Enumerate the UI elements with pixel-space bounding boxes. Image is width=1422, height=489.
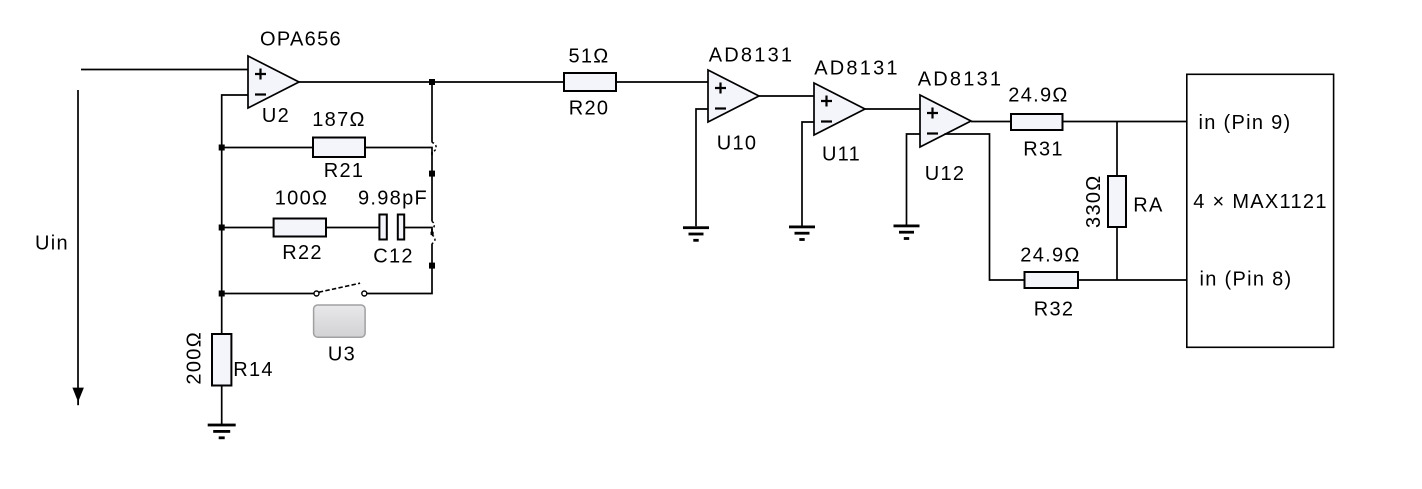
IC box 4xMAX1121 [1187, 74, 1334, 347]
svg-text:R32: R32 [1034, 299, 1075, 321]
wire U11 output [865, 108, 920, 110]
svg-text:AD8131: AD8131 [709, 45, 794, 67]
svg-text:200Ω: 200Ω [184, 331, 206, 385]
wire U12 output minus [945, 134, 1025, 280]
svg-text:330Ω: 330Ω [1083, 174, 1105, 228]
svg-text:R31: R31 [1023, 139, 1064, 161]
junction [431, 232, 434, 235]
wire U10 inverting to ground [696, 109, 708, 226]
resistor R31 [1011, 114, 1187, 130]
svg-text:U3: U3 [328, 344, 356, 366]
wire U2 inverting input [222, 95, 248, 334]
svg-text:OPA656: OPA656 [260, 29, 342, 51]
wire input to U2 + [81, 69, 248, 71]
svg-text:AD8131: AD8131 [814, 58, 899, 80]
svg-text:in (Pin 8): in (Pin 8) [1199, 269, 1292, 291]
resistor R21 [222, 138, 432, 158]
svg-text:U11: U11 [822, 144, 861, 166]
junction [219, 291, 225, 297]
resistor RA [1108, 122, 1126, 281]
svg-text:C12: C12 [373, 246, 414, 268]
wire U12 output plus [971, 121, 1011, 123]
wire U10 output [759, 95, 814, 97]
switch U3 [222, 283, 367, 296]
svg-text:100Ω: 100Ω [275, 188, 329, 210]
svg-text:U12: U12 [925, 163, 966, 185]
ground R14 [208, 424, 236, 440]
junction [429, 263, 435, 269]
svg-text:R14: R14 [233, 359, 274, 381]
wire U2 output [299, 81, 564, 83]
svg-text:R22: R22 [282, 242, 323, 264]
resistor R20 [564, 73, 708, 91]
svg-text:R20: R20 [569, 98, 610, 120]
svg-text:RA: RA [1133, 195, 1163, 217]
svg-text:U2: U2 [262, 105, 290, 127]
junction [429, 79, 435, 85]
svg-text:9.98pF: 9.98pF [358, 188, 428, 210]
ground U12 [894, 225, 920, 240]
node Uin arrow [72, 90, 84, 405]
op-amp U11 [814, 83, 865, 135]
svg-text:in (Pin 9): in (Pin 9) [1198, 112, 1291, 134]
svg-text:R21: R21 [324, 160, 365, 182]
resistor R22 [222, 219, 380, 237]
op-amp U2 [248, 56, 299, 108]
ground U10 [683, 226, 709, 241]
junction [429, 171, 435, 177]
op-amp U12 [920, 95, 971, 147]
svg-text:187Ω: 187Ω [312, 109, 366, 131]
capacitor C12 [379, 215, 432, 240]
resistor R14 [212, 334, 231, 424]
svg-text:24.9Ω: 24.9Ω [1008, 85, 1068, 107]
op-amp U10 [708, 70, 759, 122]
svg-text:51Ω: 51Ω [568, 46, 609, 68]
wire U11 inverting to ground [802, 122, 814, 226]
wire hop [432, 222, 434, 230]
svg-text:24.9Ω: 24.9Ω [1020, 245, 1080, 267]
resistor R32 [1025, 272, 1188, 288]
ground U11 [789, 226, 815, 241]
wire U12 inverting to ground [907, 134, 921, 225]
junction [219, 145, 225, 151]
svg-text:4 × MAX1121: 4 × MAX1121 [1193, 191, 1328, 213]
svg-text:AD8131: AD8131 [918, 69, 1003, 91]
U3 box [314, 305, 366, 337]
wire hop [432, 235, 435, 243]
svg-text:Uin: Uin [35, 233, 69, 255]
junction [219, 225, 225, 231]
wire hop [432, 143, 436, 153]
wire feedback vertical [367, 82, 432, 294]
svg-text:U10: U10 [717, 133, 758, 155]
